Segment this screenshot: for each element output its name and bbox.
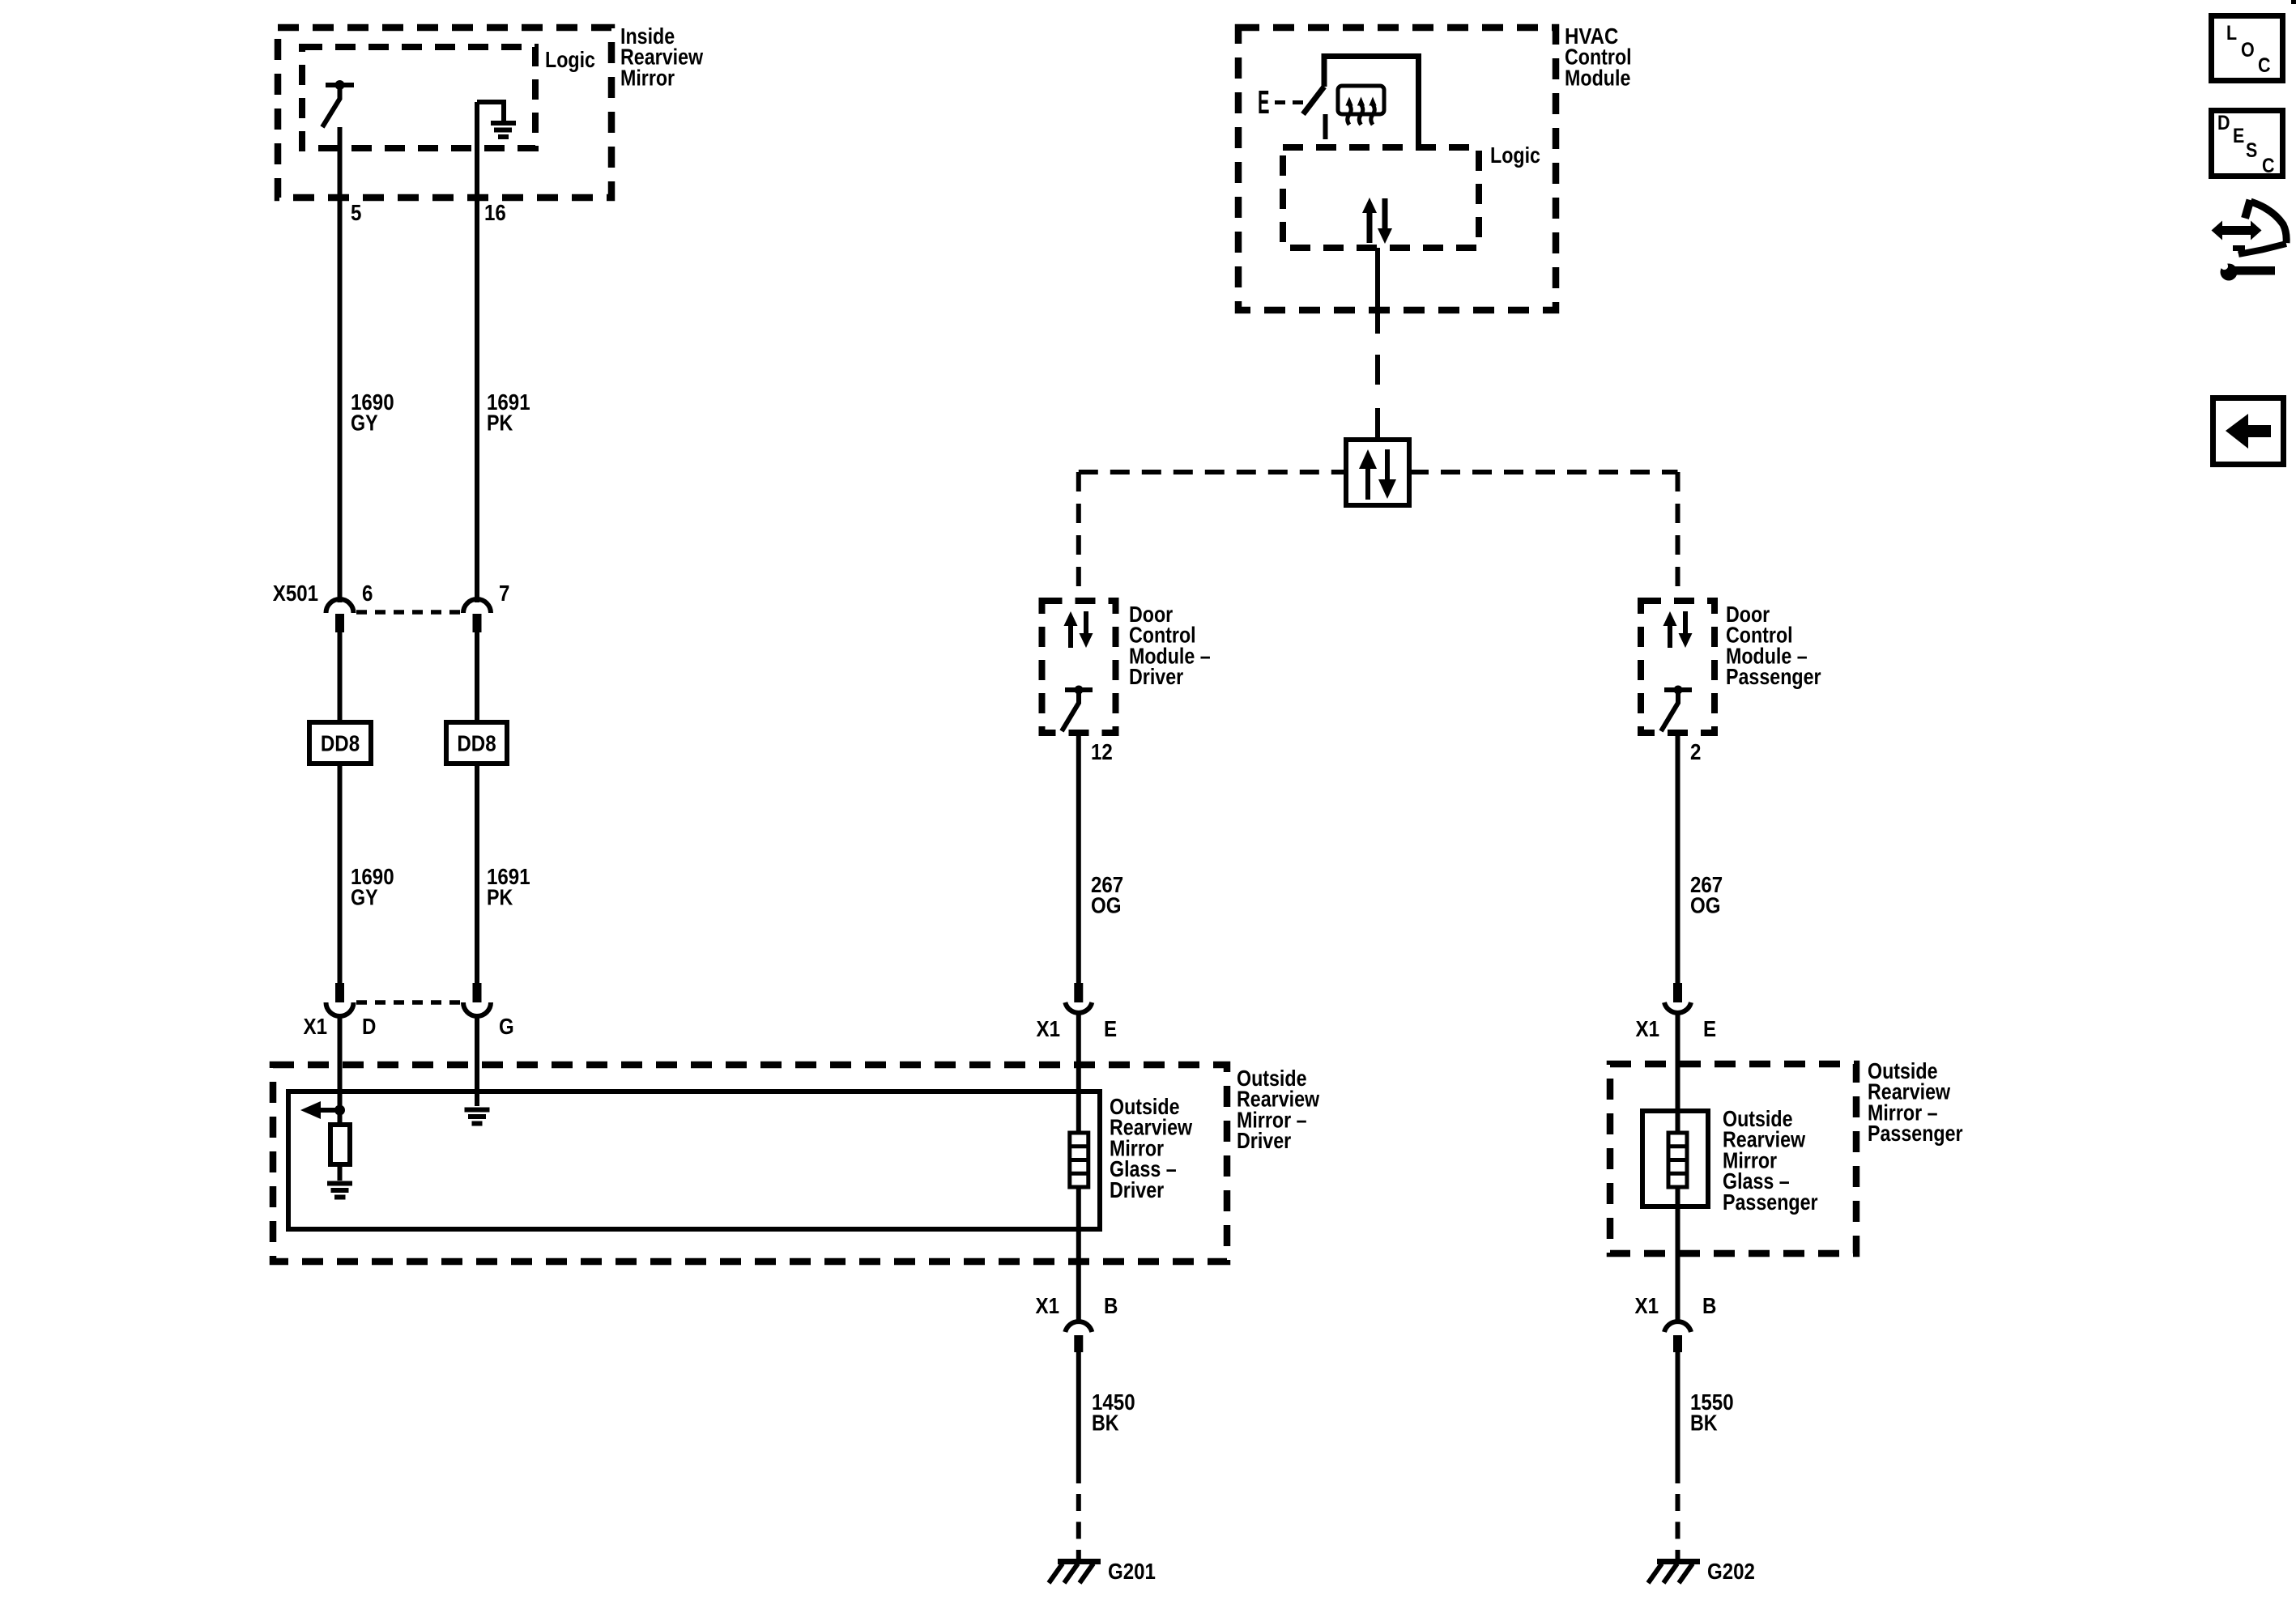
svg-text:PK: PK — [487, 885, 513, 910]
svg-text:Passenger: Passenger — [1868, 1121, 1963, 1146]
svg-text:X501: X501 — [273, 581, 318, 606]
svg-text:6: 6 — [362, 581, 373, 606]
svg-text:X1: X1 — [1635, 1293, 1659, 1318]
svg-text:16: 16 — [484, 200, 506, 225]
svg-text:BK: BK — [1092, 1411, 1119, 1436]
svg-text:D: D — [2217, 112, 2230, 134]
svg-text:Module: Module — [1565, 65, 1630, 90]
svg-text:Logic: Logic — [545, 47, 595, 72]
svg-text:X1: X1 — [304, 1014, 328, 1039]
svg-text:G: G — [499, 1014, 514, 1039]
svg-text:G202: G202 — [1707, 1559, 1755, 1584]
svg-text:Driver: Driver — [1237, 1128, 1291, 1153]
svg-text:E: E — [1703, 1016, 1716, 1041]
svg-text:E: E — [1258, 83, 1270, 121]
svg-text:E: E — [1104, 1016, 1117, 1041]
svg-text:X1: X1 — [1036, 1293, 1060, 1318]
svg-text:GY: GY — [351, 885, 378, 910]
svg-text:O: O — [2241, 39, 2255, 62]
svg-text:Passenger: Passenger — [1723, 1189, 1818, 1215]
svg-text:Logic: Logic — [1490, 143, 1540, 168]
svg-text:Passenger: Passenger — [1726, 664, 1821, 689]
svg-text:PK: PK — [487, 411, 513, 436]
svg-text:S: S — [2246, 139, 2257, 162]
svg-text:2: 2 — [1690, 739, 1701, 764]
svg-text:D: D — [362, 1014, 376, 1039]
svg-text:C: C — [2258, 54, 2271, 77]
svg-text:C: C — [2262, 155, 2275, 177]
svg-text:E: E — [2233, 125, 2244, 147]
svg-text:DD8: DD8 — [457, 731, 496, 756]
svg-text:BK: BK — [1690, 1411, 1718, 1436]
svg-text:G201: G201 — [1108, 1559, 1156, 1584]
svg-text:12: 12 — [1091, 739, 1113, 764]
svg-text:B: B — [1702, 1293, 1716, 1318]
svg-text:X1: X1 — [1037, 1016, 1061, 1041]
svg-text:Mirror: Mirror — [620, 65, 675, 90]
svg-text:DD8: DD8 — [321, 731, 360, 756]
svg-text:B: B — [1104, 1293, 1118, 1318]
svg-text:OG: OG — [1091, 893, 1122, 918]
svg-text:5: 5 — [351, 200, 361, 225]
svg-text:Driver: Driver — [1110, 1177, 1164, 1202]
svg-text:X1: X1 — [1636, 1016, 1660, 1041]
svg-text:7: 7 — [499, 581, 509, 606]
svg-text:GY: GY — [351, 411, 378, 436]
svg-text:L: L — [2226, 22, 2237, 45]
svg-text:OG: OG — [1690, 893, 1721, 918]
svg-text:Driver: Driver — [1129, 664, 1183, 689]
